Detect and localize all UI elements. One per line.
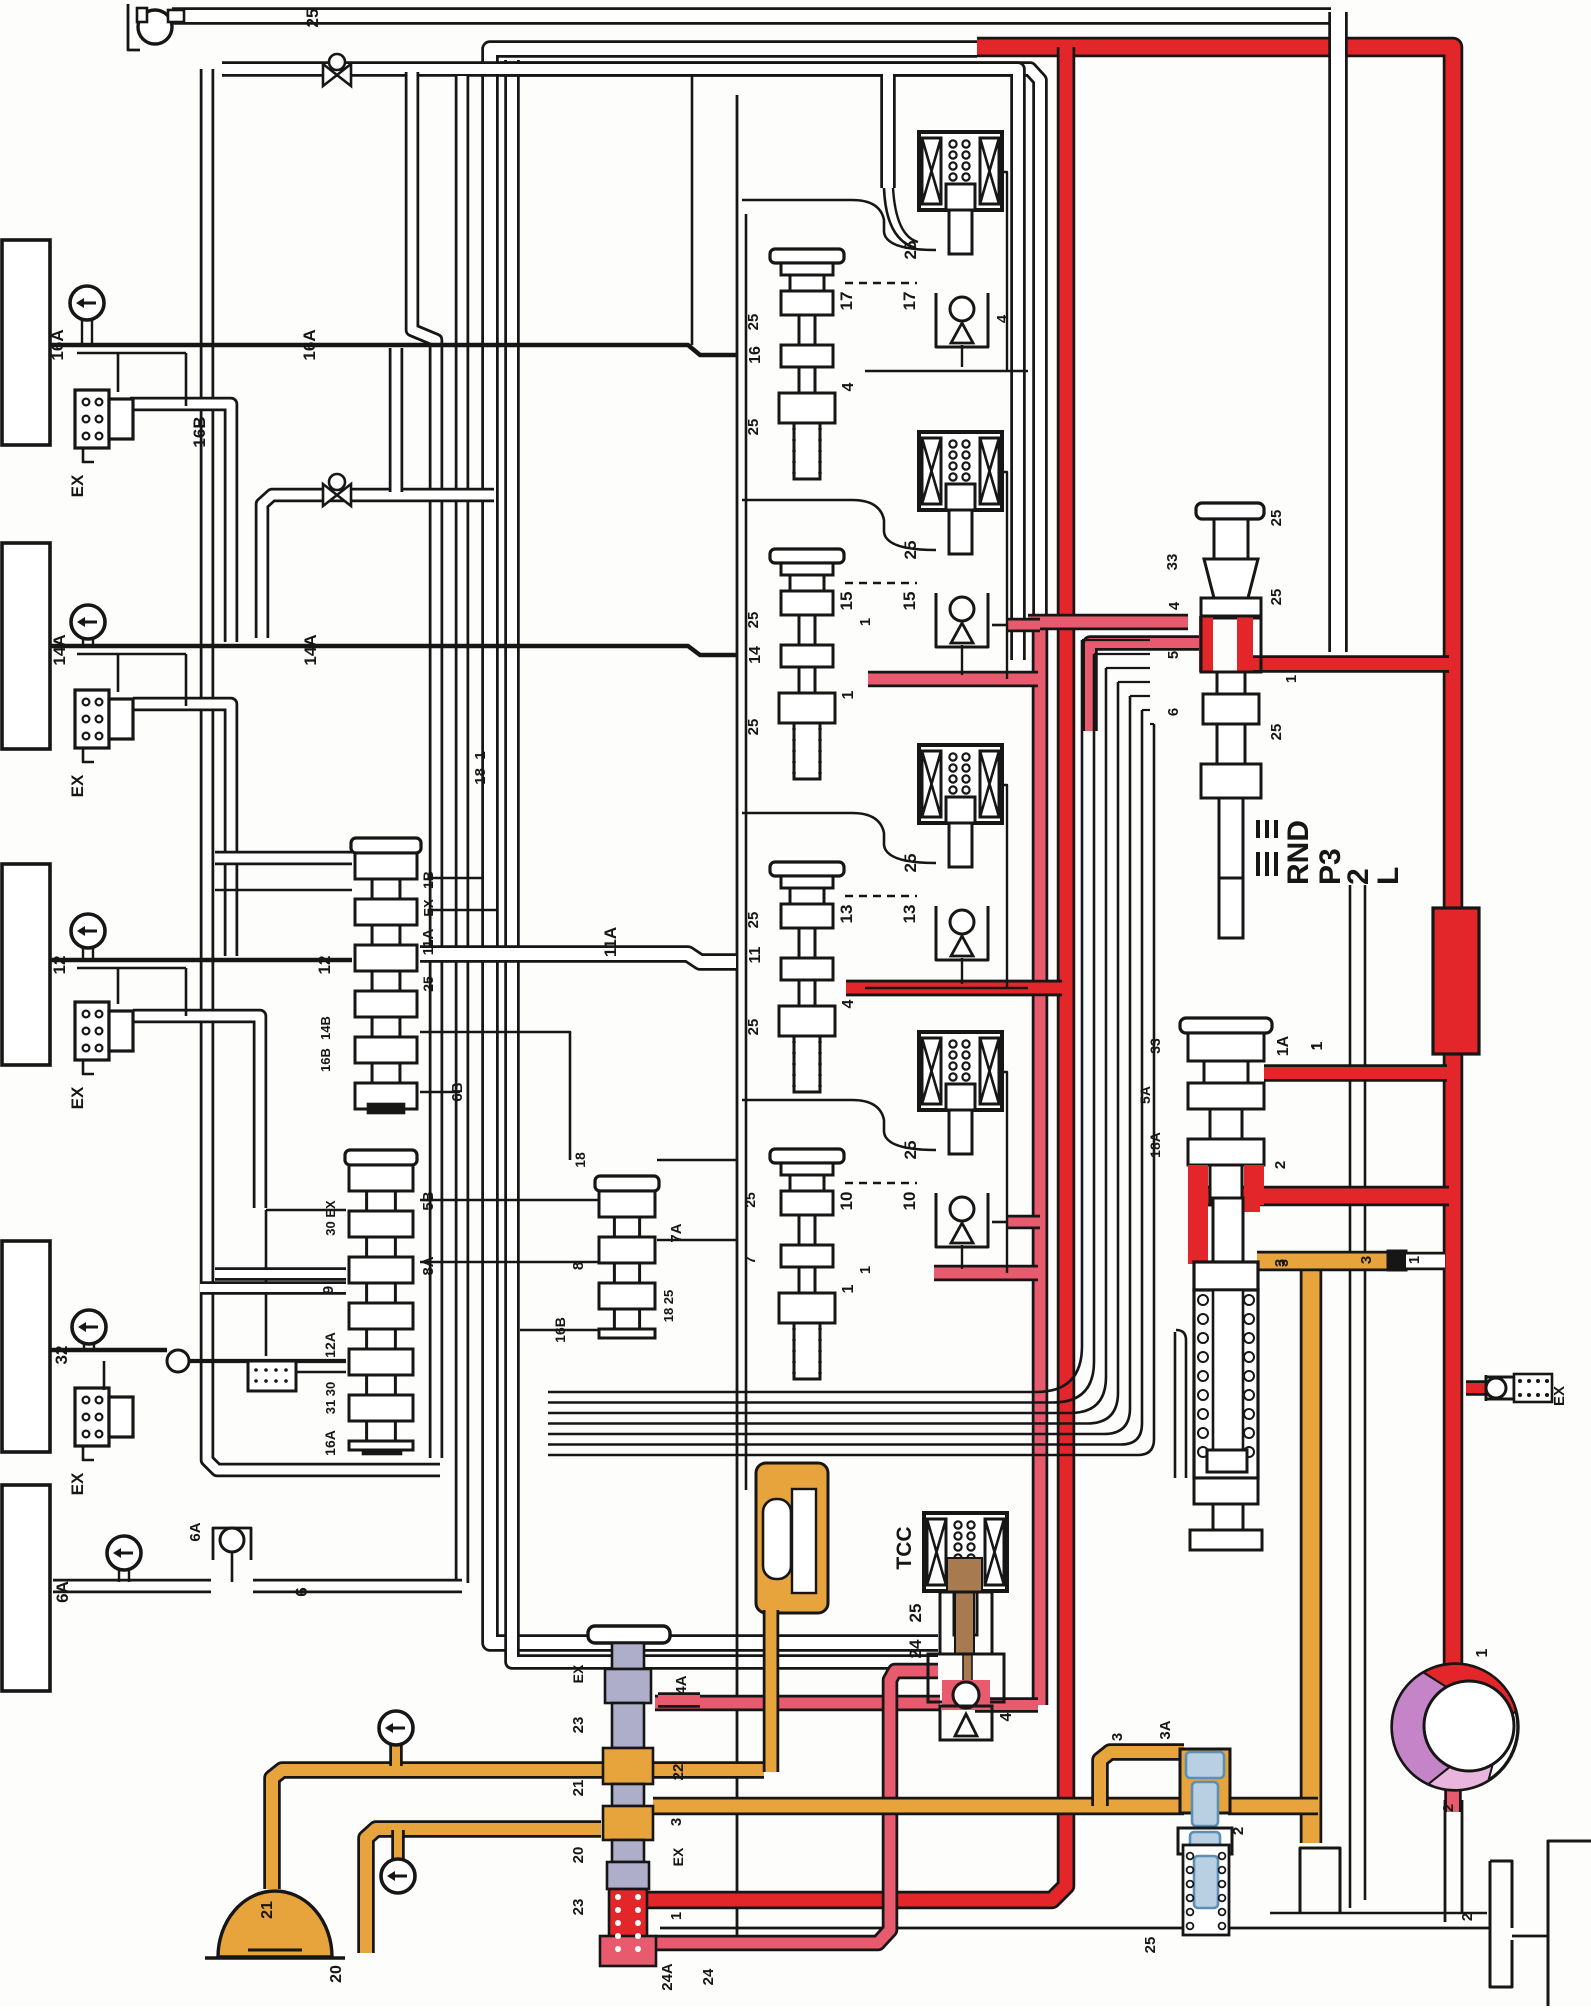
svg-text:25: 25 — [745, 612, 762, 629]
svg-text:1: 1 — [1309, 1042, 1326, 1050]
svg-text:30 EX: 30 EX — [323, 1200, 338, 1236]
svg-text:1: 1 — [857, 1266, 874, 1274]
svg-text:10: 10 — [900, 1192, 919, 1211]
svg-text:3: 3 — [1358, 1256, 1375, 1264]
svg-text:17: 17 — [837, 292, 856, 311]
svg-text:33: 33 — [1147, 1038, 1163, 1054]
svg-text:4: 4 — [840, 999, 857, 1008]
svg-text:15: 15 — [837, 592, 856, 611]
svg-text:15: 15 — [900, 592, 919, 611]
svg-text:21: 21 — [570, 1780, 587, 1797]
svg-text:25: 25 — [1268, 724, 1285, 741]
svg-text:6A: 6A — [187, 1522, 204, 1541]
svg-text:33: 33 — [1164, 554, 1181, 571]
svg-text:8: 8 — [570, 1262, 587, 1270]
svg-text:11: 11 — [747, 946, 764, 963]
svg-text:24: 24 — [700, 1968, 717, 1985]
svg-text:1: 1 — [1406, 1256, 1423, 1264]
svg-text:18: 18 — [572, 1152, 588, 1168]
svg-text:6: 6 — [292, 1587, 311, 1596]
svg-text:1B: 1B — [420, 871, 436, 889]
svg-text:2: 2 — [1459, 1913, 1476, 1921]
svg-text:18A: 18A — [1147, 1132, 1163, 1158]
svg-text:1: 1 — [840, 690, 857, 699]
svg-text:6B: 6B — [449, 1082, 466, 1101]
svg-text:7: 7 — [742, 1256, 759, 1264]
svg-text:17: 17 — [900, 292, 919, 311]
svg-text:25: 25 — [1268, 589, 1285, 606]
svg-text:L: L — [1372, 867, 1405, 885]
svg-text:5A: 5A — [1137, 1086, 1153, 1104]
svg-text:3: 3 — [1109, 1733, 1126, 1741]
svg-text:21: 21 — [259, 1901, 276, 1919]
svg-text:9: 9 — [320, 1286, 337, 1294]
svg-text:12: 12 — [50, 956, 69, 975]
svg-text:25: 25 — [745, 419, 762, 436]
svg-text:EX: EX — [68, 1472, 87, 1495]
svg-text:1: 1 — [1474, 1648, 1491, 1657]
svg-text:1: 1 — [668, 1912, 685, 1920]
svg-text:16: 16 — [747, 346, 764, 364]
svg-text:EX: EX — [68, 474, 87, 497]
svg-text:12: 12 — [315, 956, 334, 975]
svg-text:25: 25 — [745, 1019, 762, 1036]
svg-text:5B: 5B — [420, 1191, 437, 1210]
svg-text:7A: 7A — [668, 1223, 685, 1242]
svg-text:EX: EX — [670, 1847, 686, 1866]
svg-text:16A: 16A — [300, 329, 319, 360]
svg-text:14A: 14A — [301, 634, 320, 665]
svg-text:EX: EX — [68, 1086, 87, 1109]
svg-text:3: 3 — [668, 1818, 685, 1826]
svg-text:TCC: TCC — [893, 1526, 916, 1569]
svg-text:32: 32 — [52, 1346, 71, 1365]
svg-text:18 1: 18 1 — [472, 751, 489, 784]
svg-text:23: 23 — [570, 1899, 587, 1916]
svg-text:1: 1 — [840, 1284, 857, 1293]
svg-text:3A: 3A — [1157, 1720, 1174, 1739]
svg-text:2: 2 — [1272, 1161, 1289, 1169]
svg-text:12A: 12A — [322, 1332, 338, 1358]
svg-text:EX: EX — [1551, 1386, 1568, 1406]
svg-text:22: 22 — [670, 1764, 687, 1781]
svg-text:4A: 4A — [673, 1675, 690, 1694]
svg-text:11A: 11A — [420, 928, 437, 955]
svg-text:3: 3 — [1275, 1259, 1291, 1267]
svg-text:13: 13 — [900, 905, 919, 924]
svg-text:1A: 1A — [1275, 1035, 1292, 1056]
svg-text:14A: 14A — [50, 634, 69, 665]
svg-text:2: 2 — [1440, 1804, 1457, 1812]
svg-text:4: 4 — [840, 382, 857, 391]
svg-text:EX: EX — [570, 1664, 586, 1683]
svg-text:14: 14 — [747, 646, 764, 664]
svg-text:4: 4 — [1166, 601, 1183, 610]
svg-text:20: 20 — [570, 1847, 587, 1864]
svg-text:25: 25 — [1268, 510, 1285, 527]
svg-text:24A: 24A — [659, 1963, 676, 1991]
svg-text:25: 25 — [745, 719, 762, 736]
svg-text:4: 4 — [994, 314, 1011, 323]
svg-text:8A: 8A — [420, 1256, 437, 1275]
svg-text:11A: 11A — [601, 927, 620, 957]
svg-text:5: 5 — [1165, 651, 1182, 659]
svg-text:16B: 16B — [318, 1048, 333, 1072]
svg-text:31 30: 31 30 — [323, 1382, 338, 1415]
svg-text:18 25: 18 25 — [661, 1290, 676, 1323]
svg-text:2: 2 — [1342, 868, 1375, 885]
svg-text:25: 25 — [745, 314, 762, 331]
svg-text:16B: 16B — [552, 1317, 568, 1343]
svg-text:6A: 6A — [53, 1581, 72, 1603]
svg-text:16A: 16A — [48, 329, 67, 360]
svg-text:25: 25 — [742, 1192, 758, 1208]
svg-text:13: 13 — [837, 905, 856, 924]
svg-text:25: 25 — [745, 912, 762, 929]
svg-text:6: 6 — [1165, 708, 1182, 716]
svg-text:EX: EX — [421, 899, 436, 917]
svg-text:25: 25 — [420, 976, 436, 992]
svg-text:20: 20 — [328, 1965, 345, 1983]
svg-text:1: 1 — [1283, 675, 1300, 683]
svg-text:4: 4 — [998, 1712, 1015, 1721]
svg-text:25: 25 — [303, 9, 322, 28]
svg-text:25: 25 — [906, 1604, 925, 1623]
svg-text:2: 2 — [1230, 1827, 1247, 1835]
svg-text:14B: 14B — [318, 1016, 333, 1040]
svg-text:RND: RND — [1282, 820, 1315, 885]
svg-text:16B: 16B — [190, 416, 209, 447]
svg-text:24: 24 — [906, 1639, 925, 1658]
svg-text:1: 1 — [857, 618, 874, 626]
svg-text:10: 10 — [837, 1192, 856, 1211]
svg-text:23: 23 — [570, 1717, 587, 1734]
svg-text:EX: EX — [68, 774, 87, 797]
svg-text:25: 25 — [1142, 1937, 1159, 1954]
svg-text:16A: 16A — [322, 1430, 338, 1456]
